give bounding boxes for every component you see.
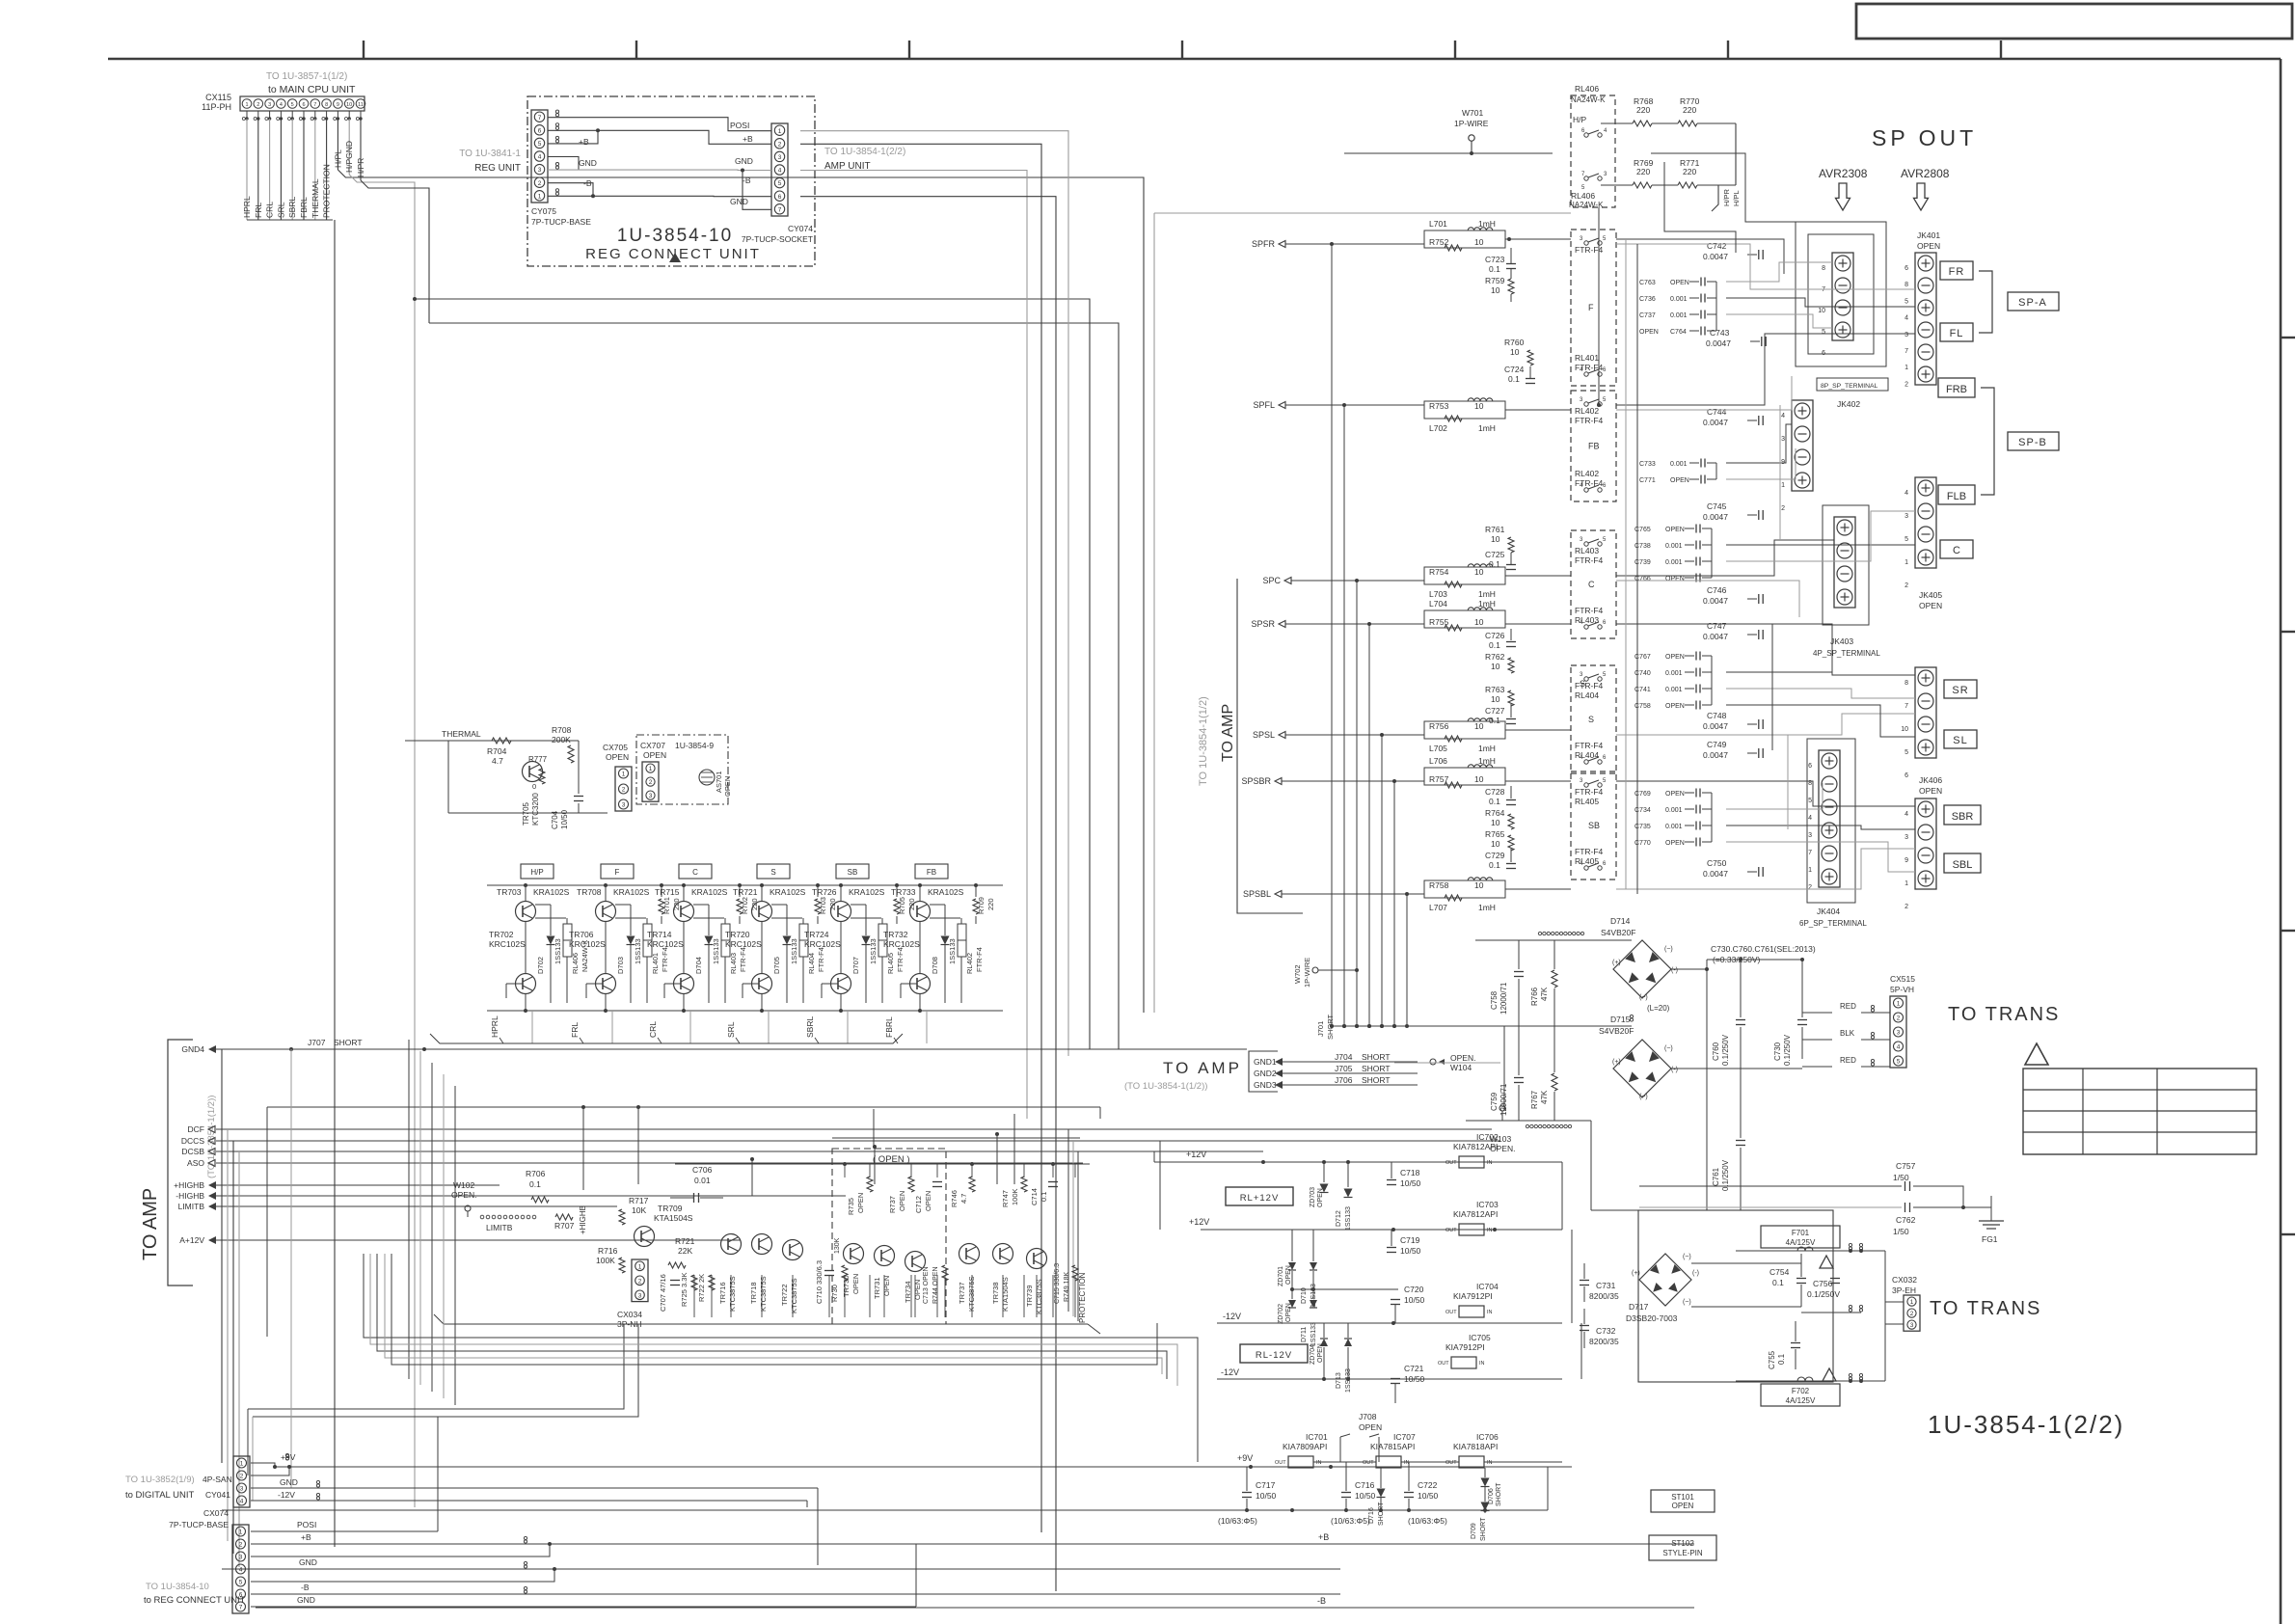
svg-text:R744 OPEN: R744 OPEN: [932, 1266, 939, 1304]
svg-text:2: 2: [638, 1278, 642, 1285]
wire CX074 pin3: [251, 1544, 550, 1556]
svg-text:-12V: -12V: [278, 1490, 295, 1500]
svg-text:ST101: ST101: [1671, 1493, 1694, 1502]
svg-text:D703: D703: [616, 957, 625, 974]
svg-text:0.0047: 0.0047: [1703, 252, 1728, 261]
svg-text:FTR-F4: FTR-F4: [1575, 606, 1604, 615]
label box SL: [1944, 730, 1977, 748]
svg-text:1: 1: [649, 766, 653, 772]
wire W103 OPEN: [1499, 1105, 1505, 1111]
svg-text:JK401: JK401: [1917, 230, 1940, 240]
bracket SP-A: [1979, 271, 1992, 333]
svg-text:5: 5: [538, 141, 542, 148]
svg-text:GND2: GND2: [1254, 1069, 1277, 1078]
transistor array bottom bus: [487, 1010, 1003, 1012]
svg-text:J704: J704: [1335, 1052, 1353, 1062]
svg-text:1: 1: [778, 128, 782, 135]
svg-text:5: 5: [239, 1580, 243, 1586]
svg-text:JK402: JK402: [1837, 399, 1860, 409]
svg-text:SP-A: SP-A: [2018, 297, 2047, 309]
relay RL403 FTR-F4 (C group): [1571, 530, 1616, 638]
svg-text:R765: R765: [1485, 829, 1505, 839]
svg-text:R759: R759: [1485, 276, 1505, 285]
svg-text:5: 5: [1808, 798, 1812, 804]
svg-text:TR720: TR720: [725, 930, 750, 939]
svg-text:3: 3: [1897, 1030, 1901, 1037]
svg-text:OUT: OUT: [1445, 1228, 1457, 1233]
svg-text:R702: R702: [741, 897, 749, 914]
svg-text:TR709: TR709: [658, 1204, 683, 1213]
svg-text:R767: R767: [1530, 1090, 1539, 1109]
svg-text:SBL: SBL: [1953, 859, 1973, 871]
border tick mark: [363, 41, 365, 59]
border tick mark: [1454, 41, 1456, 59]
model arrow AVR2308: [1836, 183, 1850, 210]
svg-text:(10/63:Φ5): (10/63:Φ5): [1218, 1516, 1257, 1526]
svg-text:3: 3: [649, 793, 653, 799]
svg-text:1: 1: [1910, 1299, 1914, 1306]
transistor TR705 KTC3200: [523, 762, 543, 782]
svg-text:8200/35: 8200/35: [1589, 1291, 1619, 1301]
svg-text:1/50: 1/50: [1893, 1227, 1909, 1236]
wire net SBRL: [291, 119, 293, 220]
wire base TR714: [664, 983, 681, 985]
svg-text:7P-TUCP-BASE: 7P-TUCP-BASE: [531, 217, 591, 227]
svg-text:W104: W104: [1450, 1063, 1472, 1072]
svg-text:(-): (-): [1692, 1270, 1699, 1277]
svg-text:OPEN: OPEN: [1639, 329, 1659, 336]
svg-text:0.001: 0.001: [1665, 559, 1683, 566]
svg-text:7: 7: [1904, 348, 1908, 355]
wire H/PGND branch down to amp bracket: [413, 297, 417, 301]
wire SPSBR row: [1304, 780, 1424, 782]
svg-text:L703: L703: [1429, 589, 1447, 599]
svg-text:FTR-F4: FTR-F4: [661, 947, 669, 972]
svg-text:10: 10: [1474, 774, 1484, 784]
svg-text:(-): (-): [1671, 967, 1678, 974]
label box FLB: [1938, 485, 1975, 504]
svg-text:SHORT: SHORT: [1362, 1064, 1391, 1073]
svg-text:IN: IN: [1479, 1361, 1485, 1367]
resistor R701 220: [659, 899, 664, 914]
wire SPC row: [1313, 580, 1424, 582]
svg-text:SRL: SRL: [276, 202, 285, 218]
transistor TR734 OPEN: [905, 1252, 926, 1272]
dashed OPEN box: [832, 1149, 946, 1324]
svg-text:C762: C762: [1896, 1215, 1916, 1225]
svg-text:GND: GND: [280, 1477, 298, 1487]
svg-text:POSI: POSI: [730, 121, 749, 130]
svg-text:OPEN: OPEN: [913, 1280, 922, 1300]
svg-text:R752: R752: [1429, 237, 1449, 247]
svg-text:GND3: GND3: [1254, 1080, 1277, 1090]
svg-text:RL402: RL402: [965, 953, 974, 974]
svg-text:D706: D706: [1488, 1488, 1495, 1504]
svg-text:KIA7912PI: KIA7912PI: [1445, 1342, 1485, 1352]
harness bus from CX115 to lower page: [247, 219, 333, 221]
wire CY041 pin1 +9V: [251, 1463, 275, 1467]
svg-text:0.001: 0.001: [1670, 296, 1688, 303]
svg-text:CY075: CY075: [531, 206, 556, 216]
wire SP bus bend to right: [1332, 1025, 1504, 1027]
wire from REG unit +B to right: [800, 144, 1041, 1532]
svg-text:7: 7: [1904, 703, 1908, 710]
svg-text:10: 10: [1818, 308, 1825, 314]
driver group C label box: [679, 864, 712, 879]
svg-text:-B: -B: [743, 176, 751, 185]
junction dots on left bus: [422, 1047, 426, 1051]
svg-text:CRL: CRL: [265, 202, 275, 218]
wire net FBRL: [303, 119, 305, 220]
svg-text:R761: R761: [1485, 525, 1505, 534]
svg-text:L702: L702: [1429, 423, 1447, 433]
wire base TR732: [901, 983, 917, 985]
svg-text:C712: C712: [914, 1196, 923, 1213]
svg-text:22K: 22K: [678, 1246, 692, 1256]
svg-text:1: 1: [245, 102, 248, 108]
transistor TR739 KTC3875S: [1027, 1249, 1047, 1269]
svg-text:3: 3: [538, 167, 542, 174]
svg-text:10: 10: [1474, 880, 1484, 890]
wire jack feeders: [1616, 239, 1784, 274]
svg-text:GND: GND: [579, 158, 597, 168]
svg-text:100K: 100K: [596, 1256, 615, 1265]
border tick mark: [2281, 337, 2295, 338]
svg-text:D702: D702: [536, 957, 545, 974]
svg-text:C729: C729: [1485, 851, 1505, 860]
relay coil RL401: [643, 924, 652, 957]
wire CX074 GND: [251, 1568, 1340, 1570]
svg-text:KTA1504S: KTA1504S: [654, 1213, 693, 1223]
svg-text:KIA7809API: KIA7809API: [1283, 1442, 1327, 1451]
svg-text:0.1: 0.1: [1040, 1192, 1048, 1202]
border tick mark: [2281, 631, 2295, 633]
diode ladder wires: [1291, 1230, 1293, 1261]
svg-text:TO TRANS: TO TRANS: [1930, 1298, 2041, 1319]
svg-text:KTC3875S: KTC3875S: [728, 1276, 737, 1312]
svg-text:RL405: RL405: [1575, 797, 1599, 806]
svg-text:C732: C732: [1596, 1326, 1616, 1336]
svg-text:C714: C714: [1030, 1188, 1039, 1205]
border tick mark: [635, 41, 637, 59]
wire top loop into jacks: [1651, 153, 1796, 222]
border tick mark: [2281, 930, 2295, 932]
svg-text:OPEN: OPEN: [1317, 1188, 1324, 1207]
svg-text:FG1: FG1: [1982, 1234, 1998, 1244]
svg-text:OUT: OUT: [1445, 1310, 1457, 1315]
diode D710 1SS133: [1310, 1262, 1317, 1270]
svg-text:2: 2: [1781, 505, 1785, 512]
svg-text:4.7: 4.7: [492, 756, 503, 766]
svg-text:C758: C758: [1490, 990, 1499, 1010]
label box FRB: [1938, 378, 1975, 397]
svg-text:IC706: IC706: [1476, 1432, 1499, 1442]
svg-text:0.0047: 0.0047: [1703, 750, 1728, 760]
inductor L705 1mH / resistor R756 10: [1424, 721, 1505, 739]
wire collector F: [615, 904, 631, 906]
svg-text:0.001: 0.001: [1665, 807, 1683, 814]
svg-text:0.001: 0.001: [1665, 824, 1683, 830]
label ST101 OPEN: [1651, 1490, 1715, 1512]
border tick mark: [908, 41, 910, 59]
svg-text:R703: R703: [819, 897, 827, 914]
svg-text:100K: 100K: [1011, 1188, 1019, 1205]
wire net H/PL: [337, 119, 338, 170]
svg-text:1SS133: 1SS133: [712, 938, 720, 964]
wire bundle mid verticals: [408, 1040, 410, 1379]
svg-text:SL: SL: [1953, 735, 1967, 746]
fuse symbol F701: [1736, 1250, 1885, 1252]
connector CX034 3P-NH: [632, 1259, 648, 1302]
resistor R709 220: [973, 899, 979, 914]
svg-text:KRC102S: KRC102S: [883, 939, 920, 949]
svg-text:SR: SR: [1952, 685, 1968, 696]
svg-text:to REG CONNECT UNIT: to REG CONNECT UNIT: [144, 1595, 246, 1606]
svg-text:OPEN: OPEN: [851, 1274, 860, 1294]
connector CY075 7P-TUCP-BASE: [531, 110, 548, 203]
svg-text:1U-3854-10: 1U-3854-10: [617, 226, 733, 246]
svg-text:6P_SP_TERMINAL: 6P_SP_TERMINAL: [1799, 919, 1867, 928]
svg-text:F701: F701: [1792, 1229, 1810, 1237]
wire CX074 GND2: [251, 1606, 916, 1608]
svg-text:R730: R730: [830, 1285, 839, 1302]
svg-text:C706: C706: [692, 1165, 713, 1175]
svg-text:STYLE-PIN: STYLE-PIN: [1662, 1549, 1703, 1557]
svg-text:C745: C745: [1707, 501, 1727, 511]
svg-text:5: 5: [1822, 329, 1825, 336]
svg-text:KRA102S: KRA102S: [770, 887, 806, 897]
svg-text:1mH: 1mH: [1478, 744, 1496, 753]
svg-text:KTC3875S: KTC3875S: [967, 1276, 976, 1312]
bracket SP-B: [1981, 388, 1994, 495]
svg-text:J708: J708: [1359, 1412, 1377, 1421]
svg-text:FTR-F4: FTR-F4: [817, 947, 825, 972]
svg-text:1mH: 1mH: [1478, 589, 1496, 599]
relay RL401 FTR-F4 (F group): [1571, 230, 1616, 386]
svg-text:C: C: [1588, 580, 1595, 589]
svg-text:C749: C749: [1707, 740, 1727, 749]
svg-text:C723: C723: [1485, 255, 1505, 264]
svg-text:ZD703: ZD703: [1310, 1187, 1316, 1207]
svg-text:DCSB: DCSB: [181, 1147, 204, 1156]
svg-text:1P-WIRE: 1P-WIRE: [1303, 958, 1311, 988]
diode D707 1SS133: [862, 936, 871, 945]
svg-text:C733: C733: [1639, 461, 1656, 468]
svg-text:8: 8: [1822, 265, 1825, 272]
wire base TR724: [822, 983, 838, 985]
svg-text:TR703: TR703: [497, 887, 522, 897]
svg-text:GND: GND: [730, 197, 748, 206]
svg-text:5P-VH: 5P-VH: [1890, 985, 1914, 994]
wire regulator interconnect: [1313, 1461, 1376, 1463]
svg-text:KTC3875S: KTC3875S: [1035, 1279, 1043, 1314]
svg-text:J705: J705: [1335, 1064, 1353, 1073]
svg-text:FTR-F4: FTR-F4: [739, 947, 747, 972]
zener ZD704 OPEN: [1320, 1339, 1328, 1346]
svg-text:10/50: 10/50: [1404, 1374, 1425, 1384]
svg-text:D708: D708: [931, 957, 939, 974]
connector CY074 7P-TUCP-SOCKET: [771, 123, 788, 216]
svg-text:(~): (~): [1683, 1254, 1691, 1260]
svg-text:R717: R717: [629, 1196, 649, 1205]
svg-text:1: 1: [1904, 365, 1908, 371]
svg-text:2: 2: [1904, 381, 1908, 388]
svg-text:C: C: [692, 868, 698, 877]
border tick mark: [2000, 41, 2002, 59]
svg-text:D714: D714: [1610, 916, 1631, 926]
svg-text:OUT: OUT: [1445, 1160, 1457, 1166]
wire +B 2: [548, 130, 598, 144]
svg-text:SHORT: SHORT: [1496, 1482, 1502, 1506]
svg-text:1SS133: 1SS133: [554, 938, 562, 964]
svg-text:FTR-F4: FTR-F4: [896, 947, 905, 972]
resistor R702 220: [737, 899, 743, 914]
svg-text:R754: R754: [1429, 567, 1449, 577]
pin junction dots under CX115: [246, 111, 248, 119]
svg-text:CX034: CX034: [617, 1310, 642, 1319]
svg-text:BLK: BLK: [1840, 1029, 1855, 1038]
svg-text:R749 18K: R749 18K: [1064, 1272, 1070, 1302]
transistor TR738 KTA1504S: [993, 1244, 1013, 1264]
title block box (empty): [1856, 4, 2292, 39]
svg-text:TO AMP: TO AMP: [140, 1188, 161, 1260]
svg-text:D712: D712: [1336, 1210, 1342, 1227]
label box FL: [1940, 323, 1973, 341]
svg-text:10: 10: [1474, 237, 1484, 247]
svg-text:0.001: 0.001: [1670, 461, 1688, 468]
svg-text:THERMAL: THERMAL: [442, 729, 481, 739]
svg-text:C730.C760.C761(SEL:2013): C730.C760.C761(SEL:2013): [1711, 944, 1816, 954]
svg-text:0.1: 0.1: [1489, 640, 1500, 650]
svg-text:220: 220: [986, 898, 995, 910]
svg-text:RL401: RL401: [1575, 353, 1599, 363]
svg-text:OPEN: OPEN: [924, 1191, 932, 1211]
svg-text:6: 6: [1808, 763, 1812, 770]
svg-text:4: 4: [1904, 490, 1908, 497]
svg-text:GND: GND: [297, 1595, 315, 1605]
svg-text:4: 4: [240, 1499, 244, 1505]
svg-text:1: 1: [1897, 1001, 1901, 1008]
svg-text:7P-TUCP-SOCKET: 7P-TUCP-SOCKET: [742, 234, 813, 244]
wire CY041 pin2: [251, 1467, 289, 1475]
svg-text:2: 2: [649, 779, 653, 786]
label box C: [1940, 540, 1973, 558]
svg-text:OPEN: OPEN: [1919, 786, 1942, 796]
svg-text:OPEN: OPEN: [643, 750, 666, 760]
svg-text:7: 7: [1808, 850, 1812, 856]
svg-text:TR702: TR702: [489, 930, 514, 939]
svg-text:(+): (+): [1612, 960, 1621, 966]
svg-text:C754: C754: [1769, 1267, 1790, 1277]
warning triangle: [2025, 1043, 2048, 1065]
svg-text:R762: R762: [1485, 652, 1505, 662]
svg-text:KRC102S: KRC102S: [569, 939, 606, 949]
wire thermal area: [578, 741, 580, 794]
svg-text:1: 1: [239, 1529, 243, 1536]
transistor array top bus: [487, 884, 1003, 886]
model arrow AVR2808: [1914, 183, 1929, 210]
svg-text:AS701: AS701: [715, 771, 723, 793]
relay coil RL406: [563, 924, 572, 957]
left bracket TO AMP: [168, 1040, 193, 1286]
svg-text:RL401: RL401: [651, 953, 660, 974]
svg-text:TO 1U-3854-10: TO 1U-3854-10: [146, 1582, 209, 1592]
svg-text:C710 330/6.3: C710 330/6.3: [815, 1260, 824, 1304]
svg-text:2: 2: [240, 1474, 244, 1480]
wire bundle left verticals: [221, 1049, 223, 1463]
svg-text:(10/63:Φ5): (10/63:Φ5): [1408, 1516, 1447, 1526]
border tick mark: [1181, 41, 1183, 59]
svg-text:3: 3: [638, 1292, 642, 1299]
svg-text:1SS133: 1SS133: [1310, 1322, 1317, 1346]
wire SPSBL drop: [1406, 894, 1408, 1026]
svg-text:OPEN: OPEN: [882, 1276, 891, 1296]
wire SPSBL row: [1304, 893, 1424, 895]
svg-text:RL404: RL404: [1575, 690, 1599, 700]
svg-text:FRL: FRL: [570, 1022, 580, 1038]
svg-text:5: 5: [1904, 749, 1908, 756]
svg-text:CX705: CX705: [603, 743, 628, 752]
svg-text:220: 220: [1683, 105, 1696, 115]
svg-text:C721: C721: [1404, 1364, 1424, 1373]
svg-text:TR724: TR724: [804, 930, 829, 939]
svg-text:OPEN.: OPEN.: [1450, 1053, 1475, 1063]
wire headphone stub: [1712, 185, 1718, 211]
svg-text:0.001: 0.001: [1665, 670, 1683, 677]
diode D716 SHORT: [1377, 1489, 1386, 1498]
test point: [555, 163, 558, 166]
svg-text:OUT: OUT: [1275, 1460, 1286, 1466]
svg-text:FBRL: FBRL: [884, 1016, 894, 1038]
connector SR/SL column: [1915, 667, 1936, 758]
svg-text:10: 10: [1491, 285, 1500, 295]
svg-text:H/PL: H/PL: [333, 149, 342, 168]
svg-text:4P-SAN: 4P-SAN: [203, 1475, 232, 1484]
svg-text:SHORT: SHORT: [334, 1038, 363, 1047]
wire drops from DCF group into cluster: [750, 1157, 754, 1161]
svg-text:OPEN: OPEN: [1670, 280, 1689, 286]
svg-text:1: 1: [240, 1461, 244, 1468]
transistor TR730 OPEN: [844, 1244, 864, 1264]
svg-text:4: 4: [280, 102, 283, 108]
svg-text:SPSL: SPSL: [1253, 730, 1275, 740]
svg-text:GND1: GND1: [1254, 1057, 1277, 1067]
svg-text:AVR2308: AVR2308: [1819, 167, 1868, 180]
svg-text:REG UNIT: REG UNIT: [474, 163, 521, 174]
wire -B: [548, 195, 771, 197]
driver group S label box: [757, 864, 790, 879]
svg-text:10/50: 10/50: [1418, 1491, 1439, 1501]
svg-text:C719: C719: [1400, 1235, 1420, 1245]
svg-text:KIA7818API: KIA7818API: [1453, 1442, 1498, 1451]
svg-text:JK406: JK406: [1919, 775, 1942, 785]
transistor TR731 OPEN: [875, 1246, 895, 1266]
wire +B: [548, 130, 771, 144]
svg-text:C725: C725: [1485, 550, 1505, 559]
svg-text:(~): (~): [1664, 1045, 1673, 1052]
svg-text:R705: R705: [898, 897, 906, 914]
svg-text:3: 3: [240, 1486, 244, 1493]
svg-text:RL402: RL402: [1575, 406, 1599, 416]
label ST102 STYLE-PIN: [1649, 1535, 1716, 1560]
svg-text:CX115: CX115: [205, 93, 231, 102]
wire loop rect around JK404: [1807, 739, 1855, 903]
svg-text:CX707: CX707: [640, 741, 665, 750]
svg-text:PROTECTION: PROTECTION: [1078, 1272, 1087, 1323]
wire CX074 +B: [251, 1543, 1340, 1545]
wire -B 2: [548, 183, 593, 197]
svg-text:7: 7: [313, 102, 316, 108]
